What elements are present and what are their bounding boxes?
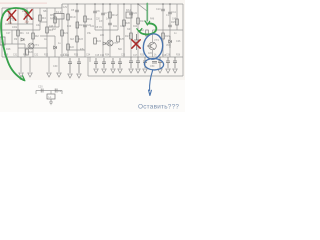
svg-text:C42: C42 [120, 26, 125, 28]
wire V x77 [76, 4, 78, 57]
wire ground stub x49 [48, 57, 50, 72]
svg-text:C32: C32 [34, 55, 39, 57]
diode VD1 [21, 38, 24, 41]
svg-text:R32: R32 [44, 55, 49, 57]
resistor R27 [146, 30, 149, 36]
junction dot x77 [76, 3, 78, 5]
wire V x124 [123, 4, 125, 57]
IC DA1 [126, 12, 132, 18]
svg-text:R12: R12 [112, 13, 118, 17]
capacitor Cd2 [136, 57, 140, 68]
wire subcircuit bottom drop [50, 99, 52, 102]
svg-text:10u: 10u [25, 21, 30, 24]
capacitor C5 [75, 10, 79, 12]
capacitor Cd6 [173, 57, 177, 68]
transistor Q2 [107, 40, 113, 46]
svg-text:R20: R20 [29, 51, 34, 54]
ground gd6 [173, 69, 177, 73]
capacitor Cb1 [68, 58, 72, 73]
capacitor Cc4 [118, 58, 122, 68]
svg-text:R46: R46 [150, 19, 155, 21]
svg-text:R21: R21 [64, 32, 69, 35]
annotation red X over C2 [24, 10, 32, 20]
capacitor C22 [83, 25, 87, 27]
resistor R24 [94, 38, 97, 44]
diode VD2 [103, 42, 106, 45]
capacitor C6 [93, 11, 97, 13]
wire Q3 emitter [152, 50, 154, 57]
wire V x95 [94, 4, 96, 30]
transistor Q1 [28, 43, 34, 49]
wire node rail y48 left [18, 47, 47, 49]
wire stub x90 [89, 57, 91, 62]
svg-text:C15 C16: C15 C16 [95, 55, 105, 57]
svg-text:C34: C34 [86, 55, 91, 57]
svg-text:R42: R42 [133, 26, 138, 28]
junction dot x103 [102, 3, 104, 5]
svg-text:10u: 10u [8, 22, 13, 25]
svg-text:C40: C40 [49, 26, 54, 28]
resistor R16 [162, 33, 165, 39]
ground sub [49, 99, 53, 105]
capacitor Cc2 [102, 58, 106, 68]
svg-text:C35: C35 [121, 55, 126, 57]
svg-text:R23: R23 [79, 38, 84, 41]
wire node rail y36 left [40, 36, 55, 57]
wire ground stub x30 [29, 57, 31, 72]
wire node rail y30 [2, 29, 40, 31]
svg-text:220: 220 [100, 34, 105, 37]
ground g-left2 [28, 73, 32, 77]
wire V x170 [169, 4, 171, 57]
annotation red X over C12 [132, 40, 140, 48]
annotation green arc arrowhead [137, 29, 142, 32]
svg-text:C27: C27 [6, 32, 11, 35]
svg-text:K1.1: K1.1 [56, 10, 62, 14]
wire V x68 [67, 4, 69, 57]
ground gd2 [136, 69, 140, 73]
wire right edge drop [182, 4, 184, 76]
capacitor Cc1 [94, 58, 98, 68]
svg-text:3k3: 3k3 [70, 38, 75, 41]
capacitor C50 inside lower blue ellipse [152, 62, 157, 64]
svg-text:R28: R28 [6, 48, 11, 51]
wire V x40 [39, 8, 41, 30]
ground g-left3 [47, 73, 51, 77]
svg-text:C45: C45 [172, 19, 177, 21]
svg-text:R17: R17 [125, 35, 130, 38]
svg-text:C50: C50 [150, 65, 155, 68]
capacitor Cd3 [143, 57, 147, 68]
junction dot x95 [94, 3, 96, 5]
connector X1 [0, 37, 5, 45]
wire V x55 [54, 8, 56, 27]
diode VD4 [54, 46, 57, 49]
wire V x62 [61, 4, 63, 57]
capacitor Cb2 [77, 58, 81, 73]
annotation green arc arrow [139, 23, 156, 34]
capacitor Cd4 [158, 57, 162, 68]
svg-text:R31: R31 [23, 55, 28, 57]
wire V x27 [26, 8, 28, 24]
capacitor C25 [168, 25, 172, 27]
svg-text:R15: R15 [171, 21, 176, 24]
resistor R10 [67, 14, 70, 20]
svg-text:C41: C41 [90, 26, 95, 28]
svg-text:C30: C30 [53, 65, 58, 68]
svg-text:Оставить???: Оставить??? [138, 103, 179, 110]
wire top rail left section [2, 7, 62, 9]
wire bottom ground rail [88, 75, 183, 77]
ground gd1 [129, 69, 133, 73]
ground gc4 [118, 69, 122, 73]
wire diagonal to x147 [138, 4, 147, 11]
junction dot x147 [146, 3, 148, 5]
svg-text:R5: R5 [50, 13, 54, 17]
resistor R20 [26, 49, 29, 55]
svg-text:R36: R36 [176, 55, 181, 57]
annotation blue ellipse around Q3 [142, 33, 165, 61]
wire node y50 mid [68, 49, 85, 51]
annotation green lasso arrowhead [20, 76, 25, 81]
decorative [0, 3, 47, 4]
wire subcircuit left drop [35, 91, 37, 95]
resistor R1 [17, 30, 20, 36]
resistor R5 [54, 17, 57, 23]
resistor R22 [67, 44, 70, 50]
svg-text:2k2: 2k2 [52, 28, 57, 31]
svg-text:R33: R33 [74, 55, 79, 57]
wire V x177 [176, 4, 178, 30]
junction dot x110 [109, 3, 111, 5]
resistor R2 [32, 33, 35, 39]
svg-text:R24: R24 [97, 40, 102, 43]
annotation green wire arrowhead [145, 21, 150, 25]
svg-text:R14: R14 [140, 20, 145, 23]
diode VD3 [169, 36, 172, 48]
wire V x25b [24, 44, 26, 57]
annotation green lasso curve [1, 8, 28, 80]
capacitor C12 (crossed out by red X) [134, 34, 139, 50]
svg-text:R22: R22 [70, 46, 75, 49]
capacitor C2 (crossed out) [25, 14, 30, 24]
capacitor C24 [129, 13, 133, 15]
inductor L1 [47, 94, 55, 99]
resistor R25 [117, 36, 120, 42]
svg-text:VT1: VT1 [34, 43, 39, 47]
svg-text:VT3: VT3 [154, 38, 159, 42]
wire V x10 [9, 8, 11, 24]
wire V x131 [130, 4, 132, 57]
transistor Q3 (circled in blue) [147, 42, 156, 50]
junction dot x163 [162, 3, 164, 5]
ground gd5 [166, 69, 170, 73]
wire subcircuit mid drop [50, 91, 52, 95]
svg-text:R4: R4 [42, 16, 46, 20]
svg-text:C24: C24 [133, 12, 138, 15]
svg-text:C21: C21 [58, 90, 63, 93]
wire left edge drop [1, 8, 3, 57]
svg-text:R25: R25 [120, 38, 125, 41]
annotation red X over C1 [7, 10, 16, 20]
svg-text:C17: C17 [133, 55, 138, 57]
resistor R17 [130, 33, 133, 39]
wire subcircuit top [36, 90, 62, 92]
ground gc1 [94, 69, 98, 73]
wire V x138 [137, 4, 139, 57]
wire V x147 [146, 4, 148, 24]
svg-text:R16: R16 [165, 35, 170, 38]
svg-text:5k6: 5k6 [118, 48, 123, 51]
wire V x18 [17, 8, 19, 57]
capacitor Cc3 [111, 58, 115, 68]
annotation green highlighted wire [146, 4, 148, 21]
junction dot x124 [123, 3, 125, 5]
svg-text:33n: 33n [127, 28, 132, 31]
svg-text:100k: 100k [12, 26, 18, 29]
wire V x110 [109, 4, 111, 57]
ground gd3 [143, 69, 147, 73]
wire V x33 [32, 8, 34, 57]
capacitor C21 [55, 89, 57, 93]
svg-text:R45: R45 [50, 19, 55, 21]
svg-text:R1: R1 [20, 31, 24, 35]
wire node rail y24 [5, 23, 33, 25]
svg-text:VT2: VT2 [113, 41, 118, 45]
svg-text:C11: C11 [172, 11, 177, 14]
wire Q3 collector [153, 30, 164, 42]
svg-text:SB1: SB1 [43, 10, 48, 13]
resistor R4 [39, 15, 42, 21]
svg-text:R35: R35 [140, 55, 145, 57]
capacitor C23 [108, 23, 112, 25]
svg-text:R11: R11 [87, 17, 93, 21]
resistor R12 [109, 12, 112, 18]
capacitor C20 [41, 89, 43, 93]
wire relay drop [47, 19, 59, 27]
wire top rail riser [61, 4, 63, 8]
capacitor Cd5 [166, 57, 170, 68]
svg-text:R40: R40 [67, 26, 72, 28]
wire top rail right section [62, 3, 183, 5]
junction dot x138 [137, 3, 139, 5]
ground gc2 [102, 69, 106, 73]
wire node y22 left2 [40, 21, 47, 23]
resistor R26 [123, 20, 126, 26]
svg-text:R34: R34 [105, 55, 110, 57]
wire V x118 [117, 4, 119, 30]
junction dot x170 [169, 3, 171, 5]
ground g-left1 [19, 73, 23, 77]
ground gb1 [68, 74, 72, 78]
resistor R11 [84, 16, 87, 22]
capacitor C10 [161, 9, 165, 11]
wire node rail y44 [2, 43, 25, 45]
resistor R23 [76, 36, 79, 42]
wire node rail y30 right [163, 29, 183, 31]
resistor R3 [46, 27, 49, 33]
wire V x85 [84, 4, 86, 57]
relay K1 [54, 14, 64, 20]
resistor R14 [137, 18, 140, 24]
capacitor Cd1 [129, 57, 133, 68]
resistor R15 [176, 19, 179, 25]
svg-text:12V: 12V [63, 6, 68, 9]
capacitor C7 [101, 13, 105, 15]
wire V x12b [11, 30, 13, 44]
svg-text:C26: C26 [176, 40, 181, 43]
annotation blue arrowhead [149, 90, 152, 96]
ground gd4 [158, 69, 162, 73]
svg-text:C33: C33 [63, 55, 68, 57]
ground gb2 [77, 74, 81, 78]
annotation blue lower ellipse [144, 58, 164, 70]
svg-text:R41: R41 [113, 26, 118, 28]
svg-text:C36: C36 [166, 55, 171, 57]
svg-text:VD3: VD3 [166, 44, 171, 47]
wire lower rail to ground rail riser [87, 57, 89, 76]
ground gc3 [111, 69, 115, 73]
svg-text:C8 C9: C8 C9 [95, 26, 102, 29]
svg-text:C20: C20 [38, 86, 43, 89]
capacitor C11 [168, 12, 172, 14]
svg-text:C10: C10 [156, 8, 161, 11]
wire V x47 [46, 8, 48, 57]
wire V x103 [102, 4, 104, 57]
svg-text:C31: C31 [13, 55, 18, 57]
wire subcircuit right drop [61, 91, 63, 95]
annotation blue arrow line [150, 70, 153, 91]
capacitor C1 (crossed out) [8, 14, 13, 24]
wire V x163 [162, 4, 164, 57]
svg-text:R10: R10 [70, 15, 76, 19]
ground g-left4 [57, 73, 61, 77]
wire ground stub x21 [20, 57, 22, 72]
wire node rail y30 mid [95, 29, 118, 31]
svg-text:R2: R2 [35, 34, 39, 38]
resistor R13 [76, 22, 79, 28]
resistor R21 [61, 30, 64, 36]
svg-text:R26: R26 [126, 22, 131, 25]
svg-text:1k5: 1k5 [148, 52, 153, 55]
wire ground stub x59 [58, 57, 60, 72]
wire lower signal rail [2, 56, 183, 58]
